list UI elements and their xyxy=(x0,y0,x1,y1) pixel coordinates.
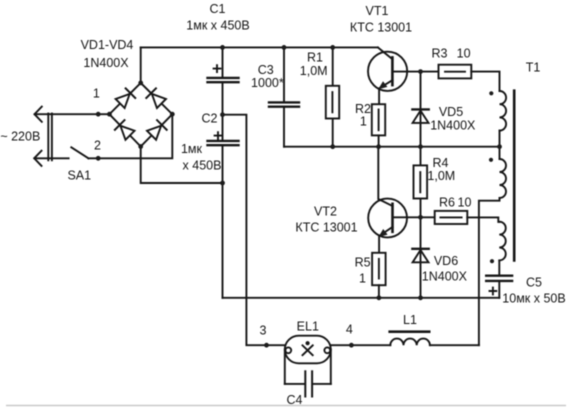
svg-text:C3: C3 xyxy=(258,63,274,77)
junction: bridge right vertex xyxy=(170,112,175,117)
wire: R6 to T1 winding III xyxy=(467,217,499,222)
resistor R3 body xyxy=(439,65,472,79)
svg-text:2: 2 xyxy=(94,139,101,153)
junction: mid rail / VD5-R4 xyxy=(418,144,423,149)
svg-text:КТС 13001: КТС 13001 xyxy=(350,21,412,35)
transistor VT2 base bar xyxy=(391,204,394,232)
wire: winding II bottom to lamp return xyxy=(479,198,500,345)
svg-text:VD5: VD5 xyxy=(439,105,463,119)
svg-text:R5: R5 xyxy=(355,256,371,270)
wire: bridge minus lead down xyxy=(141,147,223,184)
lamp EL1 right filament leg xyxy=(330,350,332,384)
junction: bridge left vertex xyxy=(107,112,112,117)
svg-text:VT1: VT1 xyxy=(366,4,389,18)
wire: bottom rail xyxy=(223,297,500,299)
svg-text:SA1: SA1 xyxy=(67,169,91,183)
transistor VT1 base bar xyxy=(391,57,394,85)
resistor R5 body xyxy=(372,253,386,285)
svg-text:1000*: 1000* xyxy=(251,76,284,90)
svg-text:10мк x 50В: 10мк x 50В xyxy=(502,292,565,306)
lamp EL1 left electrode xyxy=(285,347,291,353)
junction: C1-C2 midpoint tap xyxy=(220,112,225,117)
junction: top rail / R1 xyxy=(330,45,335,50)
wire: AC top lead to bridge xyxy=(35,113,110,115)
transistor VT1 circle xyxy=(368,52,407,91)
wire: lamp right side to L1 xyxy=(331,344,391,346)
resistor R1 body xyxy=(326,86,339,119)
svg-text:1: 1 xyxy=(360,115,367,129)
wire: C3 to mid rail xyxy=(283,108,285,147)
bridge rectifier VD1-VD4 diamond xyxy=(109,83,172,147)
resistor R4 leads xyxy=(420,147,422,166)
svg-text:3: 3 xyxy=(260,323,267,337)
wire: winding III to C5 xyxy=(498,260,500,274)
lamp EL1 discharge cross xyxy=(303,345,313,355)
wire: C1-C2 midpoint tap to lamp node 3 xyxy=(223,115,285,346)
svg-text:L1: L1 xyxy=(403,313,417,327)
svg-text:T1: T1 xyxy=(526,61,541,75)
transformer T1 winding III xyxy=(499,222,505,261)
svg-text:C5: C5 xyxy=(526,276,542,290)
resistor R2 lead to mid rail xyxy=(378,135,380,146)
wire: top positive rail xyxy=(141,46,378,48)
lamp EL1 right electrode xyxy=(324,347,330,353)
junction: VT1 base node xyxy=(418,69,423,74)
svg-text:C2: C2 xyxy=(202,112,218,126)
svg-text:КТС 13001: КТС 13001 xyxy=(295,221,357,235)
transistor VT1 emitter with arrow xyxy=(380,80,393,88)
resistor R3 lead left xyxy=(421,71,439,73)
capacitor C1 plus sign xyxy=(214,65,221,72)
svg-text:10: 10 xyxy=(457,47,471,61)
resistor R1 leads xyxy=(332,47,334,85)
transformer T1 core xyxy=(513,91,516,261)
svg-text:1N400X: 1N400X xyxy=(422,270,468,284)
junction: bridge top vertex xyxy=(138,81,143,86)
connector X1 bar right xyxy=(51,114,53,161)
junction: node 1 pin dot xyxy=(96,112,101,117)
svg-text:1,0M: 1,0M xyxy=(427,169,455,183)
plug prong arrow top xyxy=(35,107,42,122)
svg-text:VT2: VT2 xyxy=(314,205,337,219)
svg-text:10: 10 xyxy=(458,196,472,210)
svg-text:1,0M: 1,0M xyxy=(300,64,328,78)
diode VD5 triangle xyxy=(413,111,429,123)
junction: bridge minus / C2 branch xyxy=(220,181,225,186)
svg-text:VD1-VD4: VD1-VD4 xyxy=(81,38,134,52)
capacitor C4 left lead xyxy=(285,383,305,385)
svg-text:1: 1 xyxy=(93,87,100,101)
junction: top rail / C3 xyxy=(282,45,287,50)
resistor R6 lead left xyxy=(421,216,435,218)
inductor L1 core bar xyxy=(390,330,430,333)
wire: switch to bridge right vertex xyxy=(88,114,172,158)
junction: top rail / C1 xyxy=(220,45,225,50)
svg-text:R1: R1 xyxy=(307,51,323,65)
capacitor C1 plates xyxy=(208,77,239,79)
diode VD6 triangle xyxy=(413,250,429,262)
node 3 dot xyxy=(264,343,269,348)
lamp EL1 inner dot xyxy=(306,341,310,345)
capacitor C2 plus sign xyxy=(215,132,222,139)
wire: mid rail (half-bridge midpoint net) xyxy=(284,146,500,148)
junction: bottom rail / VD6 xyxy=(418,295,423,300)
transistor VT2 emitter with arrow xyxy=(380,227,393,236)
transformer T1 winding I xyxy=(500,91,507,131)
svg-text:VD6: VD6 xyxy=(434,254,458,268)
diode VD1 (upper-left edge) xyxy=(115,88,135,108)
wire: VT2 base lead to node xyxy=(394,216,421,218)
svg-text:x 450В: x 450В xyxy=(183,159,222,173)
wire: R3 to T1 winding I xyxy=(471,72,499,91)
svg-text:C4: C4 xyxy=(287,393,303,407)
wire: AC bottom lead to switch xyxy=(34,157,68,159)
transistor VT1 collector lead from top rail xyxy=(378,47,393,59)
svg-text:1: 1 xyxy=(359,272,366,286)
resistor R6 body xyxy=(435,211,468,224)
transformer T1 winding II xyxy=(499,147,501,159)
svg-text:EL1: EL1 xyxy=(297,320,319,334)
wire: C2 down to bottom rail xyxy=(222,146,224,297)
junction: bridge bottom vertex xyxy=(138,144,143,149)
diode VD6 cathode bar xyxy=(412,248,428,250)
svg-text:1N400X: 1N400X xyxy=(83,56,129,70)
junction: mid rail / R1 xyxy=(330,144,335,149)
diode VD4 (lower-right edge) xyxy=(147,120,167,140)
wire: C1 to C2 xyxy=(222,83,224,139)
junction: mid rail / R2-VT2 xyxy=(376,144,381,149)
svg-text:1мк: 1мк xyxy=(181,142,203,156)
switch SA1 blade xyxy=(71,147,88,158)
diode VD5 cathode bar xyxy=(412,108,428,110)
node 4 dot xyxy=(349,343,354,348)
wire: L1 to return riser xyxy=(430,344,479,346)
lamp EL1 left filament leg xyxy=(284,350,286,384)
wire: VT1 base lead to node xyxy=(394,71,421,73)
transistor VT2 collector lead from mid rail xyxy=(378,147,392,206)
svg-text:1N400X: 1N400X xyxy=(430,119,476,133)
resistor R5 lead to bottom rail xyxy=(378,285,380,298)
svg-text:R3: R3 xyxy=(432,47,448,61)
wire: VT2 emitter down to R5 xyxy=(378,237,380,253)
T1 winding II phase dot xyxy=(489,158,493,162)
wire: VT1 emitter down to R2 xyxy=(378,89,380,104)
junction: VT2 base node xyxy=(418,215,423,220)
capacitor C5 plus sign xyxy=(490,288,497,295)
inductor L1 winding xyxy=(390,339,430,346)
svg-text:1мк x 450В: 1мк x 450В xyxy=(186,19,249,33)
junction: mid rail / T1 windings xyxy=(497,144,502,149)
capacitor C3 plates xyxy=(269,101,299,103)
diode VD3 (lower-left edge) xyxy=(115,120,135,140)
wire: bridge plus lead up to top rail xyxy=(140,47,142,83)
capacitor C5 plates xyxy=(486,275,512,277)
capacitor C1 lead xyxy=(222,47,224,76)
capacitor C4 plates xyxy=(304,371,306,396)
diode VD2 (upper-right edge) xyxy=(146,88,166,108)
diode VD5 lead (VT1 base node to mid rail) xyxy=(420,72,422,147)
T1 winding I phase dot xyxy=(489,91,493,95)
resistor R2 body xyxy=(372,104,385,135)
resistor R4 body xyxy=(414,165,428,198)
capacitor C2 plates xyxy=(208,140,239,142)
connector X1 bar left xyxy=(47,114,49,161)
junction: node 2 pin dot xyxy=(96,156,101,161)
transistor VT2 circle xyxy=(368,199,407,238)
capacitor C4 right lead xyxy=(313,383,331,385)
svg-text:R4: R4 xyxy=(433,156,449,170)
diode VD6 lead (VT2 base node to bottom rail) xyxy=(420,217,422,297)
T1 winding III phase dot xyxy=(490,259,494,263)
svg-text:R6: R6 xyxy=(439,196,455,210)
svg-text:C1: C1 xyxy=(210,2,226,16)
capacitor C3 lead xyxy=(283,47,285,101)
svg-text:~ 220В: ~ 220В xyxy=(0,130,40,144)
junction: bottom rail / R5 xyxy=(377,295,382,300)
wire: C5 to bottom rail xyxy=(498,282,500,298)
lamp EL1 envelope xyxy=(285,336,331,364)
plug prong arrow bottom xyxy=(34,151,41,166)
svg-text:4: 4 xyxy=(346,323,353,337)
